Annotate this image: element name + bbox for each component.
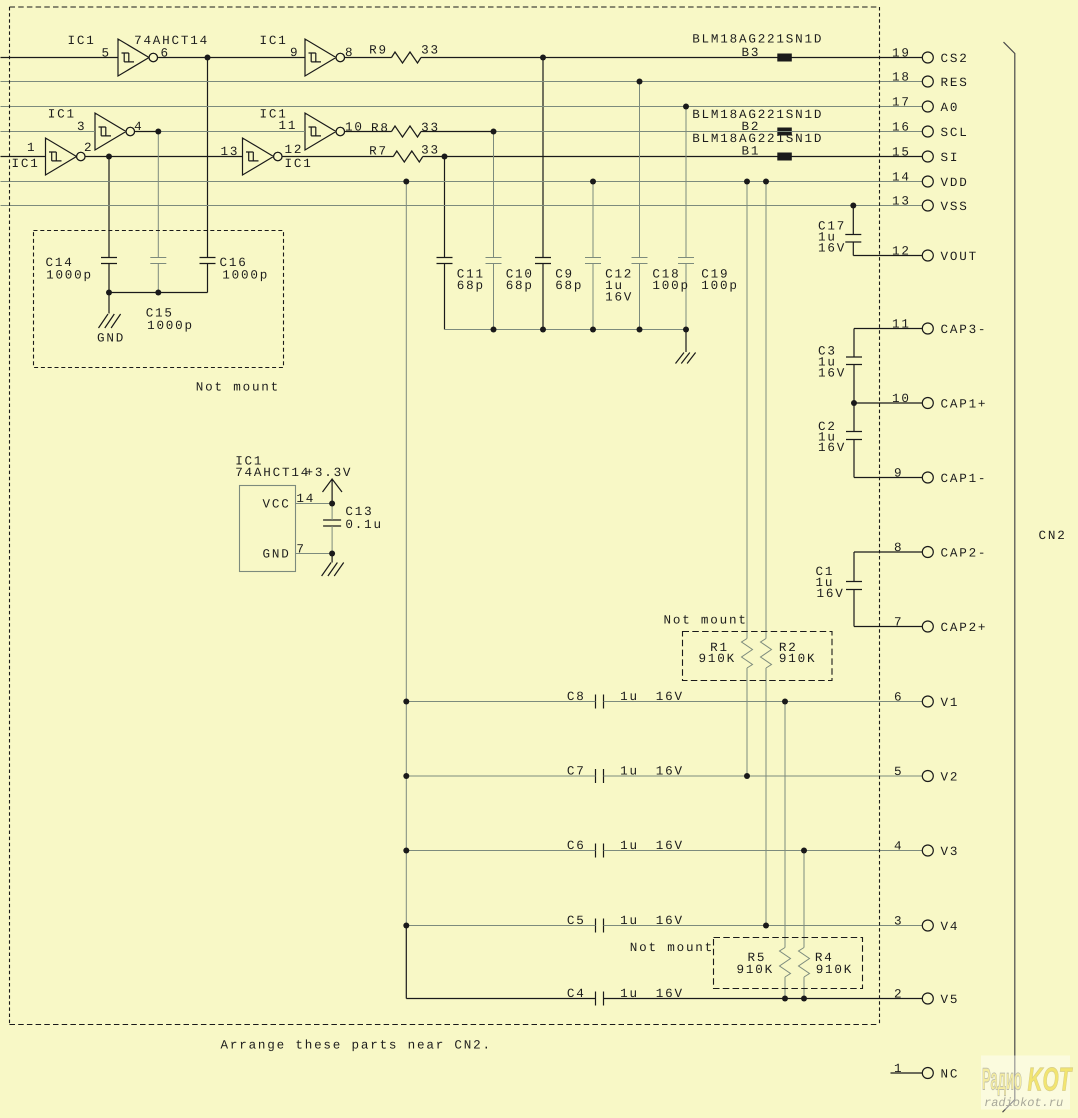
svg-text:B3: B3 [742, 46, 761, 60]
svg-text:13: 13 [892, 194, 911, 208]
svg-text:Not mount: Not mount [630, 941, 714, 955]
svg-text:IC1: IC1 [285, 157, 313, 171]
svg-text:CAP1+: CAP1+ [941, 397, 988, 411]
svg-text:68p: 68p [457, 279, 485, 293]
svg-text:V4: V4 [941, 920, 960, 934]
svg-text:Not mount: Not mount [664, 613, 748, 627]
svg-text:VOUT: VOUT [941, 250, 978, 264]
svg-text:33: 33 [421, 121, 440, 135]
svg-text:BLM18AG221SN1D: BLM18AG221SN1D [692, 32, 823, 46]
svg-text:100p: 100p [652, 279, 689, 293]
svg-text:1u: 1u [620, 839, 639, 853]
svg-text:R9: R9 [369, 43, 388, 57]
svg-text:Радио: Радио [982, 1062, 1022, 1097]
svg-text:8: 8 [894, 541, 903, 555]
svg-text:B1: B1 [742, 144, 761, 158]
svg-text:CAP1-: CAP1- [941, 472, 988, 486]
svg-text:9: 9 [894, 466, 903, 480]
svg-text:910K: 910K [816, 963, 853, 977]
svg-text:C13: C13 [345, 505, 373, 519]
svg-text:IC1: IC1 [12, 157, 40, 171]
svg-text:910K: 910K [779, 652, 816, 666]
svg-text:14: 14 [296, 492, 315, 506]
svg-text:1000p: 1000p [147, 319, 194, 333]
svg-text:7: 7 [296, 542, 305, 556]
svg-text:C4: C4 [567, 987, 586, 1001]
svg-text:12: 12 [892, 244, 911, 258]
svg-text:CN2: CN2 [1039, 529, 1067, 543]
svg-text:C7: C7 [567, 765, 586, 779]
svg-text:VDD: VDD [941, 176, 969, 190]
svg-text:16V: 16V [656, 914, 684, 928]
svg-text:100p: 100p [701, 279, 738, 293]
svg-text:VSS: VSS [941, 200, 969, 214]
svg-text:RES: RES [941, 76, 969, 90]
svg-text:2: 2 [84, 141, 93, 155]
svg-text:3: 3 [77, 120, 86, 134]
svg-text:SI: SI [941, 151, 960, 165]
svg-text:1000p: 1000p [46, 268, 93, 282]
svg-text:16V: 16V [818, 241, 846, 255]
svg-text:GND: GND [263, 547, 291, 561]
svg-text:15: 15 [892, 145, 911, 159]
svg-text:Arrange these parts near CN2.: Arrange these parts near CN2. [221, 1038, 492, 1052]
svg-text:74AHCT14: 74AHCT14 [134, 34, 209, 48]
svg-text:NC: NC [941, 1067, 960, 1081]
svg-text:16V: 16V [818, 441, 846, 455]
svg-text:16V: 16V [656, 690, 684, 704]
svg-text:16V: 16V [656, 987, 684, 1001]
svg-text:10: 10 [345, 120, 364, 134]
svg-text:SCL: SCL [941, 126, 969, 140]
svg-text:Not mount: Not mount [196, 380, 280, 394]
svg-text:9: 9 [290, 46, 299, 60]
svg-text:4: 4 [134, 120, 143, 134]
svg-text:1000p: 1000p [222, 268, 269, 282]
svg-text:68p: 68p [555, 279, 583, 293]
svg-text:11: 11 [279, 119, 298, 133]
svg-text:19: 19 [892, 46, 911, 60]
svg-text:16V: 16V [656, 839, 684, 853]
svg-text:R7: R7 [369, 144, 388, 158]
svg-text:C5: C5 [567, 914, 586, 928]
svg-text:KOT: KOT [1028, 1061, 1074, 1098]
svg-text:11: 11 [892, 317, 911, 331]
svg-text:6: 6 [894, 690, 903, 704]
svg-text:33: 33 [421, 143, 440, 157]
svg-text:3: 3 [894, 914, 903, 928]
svg-text:0.1u: 0.1u [345, 518, 382, 532]
svg-text:+3.3V: +3.3V [306, 466, 353, 480]
svg-text:CAP3-: CAP3- [941, 323, 988, 337]
svg-text:74AHCT14: 74AHCT14 [235, 466, 310, 480]
svg-text:GND: GND [97, 331, 125, 345]
svg-text:C6: C6 [567, 839, 586, 853]
svg-text:V5: V5 [941, 993, 960, 1007]
svg-text:12: 12 [285, 143, 304, 157]
svg-text:1u: 1u [620, 987, 639, 1001]
svg-text:1u: 1u [620, 690, 639, 704]
svg-text:1u: 1u [620, 914, 639, 928]
svg-text:7: 7 [894, 615, 903, 629]
svg-text:6: 6 [161, 46, 170, 60]
svg-text:13: 13 [221, 145, 240, 159]
svg-text:16V: 16V [605, 290, 633, 304]
svg-text:5: 5 [102, 46, 111, 60]
svg-text:14: 14 [892, 170, 911, 184]
svg-text:910K: 910K [699, 652, 736, 666]
svg-text:4: 4 [894, 839, 903, 853]
svg-text:C8: C8 [567, 690, 586, 704]
svg-text:1u: 1u [620, 765, 639, 779]
svg-text:17: 17 [892, 95, 911, 109]
svg-text:radiokot.ru: radiokot.ru [984, 1096, 1063, 1110]
svg-text:CS2: CS2 [941, 52, 969, 66]
svg-text:8: 8 [345, 46, 354, 60]
svg-text:V3: V3 [941, 845, 960, 859]
svg-text:CAP2-: CAP2- [941, 546, 988, 560]
svg-text:1: 1 [27, 141, 36, 155]
svg-text:16V: 16V [818, 366, 846, 380]
svg-text:A0: A0 [941, 101, 960, 115]
svg-text:V1: V1 [941, 696, 960, 710]
svg-text:5: 5 [894, 765, 903, 779]
svg-text:33: 33 [421, 43, 440, 57]
svg-text:CAP2+: CAP2+ [941, 621, 988, 635]
svg-text:IC1: IC1 [260, 34, 288, 48]
svg-text:2: 2 [894, 987, 903, 1001]
svg-text:18: 18 [892, 70, 911, 84]
svg-text:IC1: IC1 [68, 34, 96, 48]
svg-text:VCC: VCC [263, 497, 291, 511]
svg-text:10: 10 [892, 392, 911, 406]
svg-text:16: 16 [892, 120, 911, 134]
svg-text:1: 1 [894, 1062, 903, 1076]
svg-text:IC1: IC1 [48, 107, 76, 121]
svg-text:16V: 16V [817, 587, 845, 601]
svg-text:16V: 16V [656, 765, 684, 779]
svg-text:V2: V2 [941, 770, 960, 784]
svg-text:68p: 68p [506, 279, 534, 293]
svg-text:R8: R8 [371, 121, 390, 135]
svg-text:910K: 910K [737, 963, 774, 977]
